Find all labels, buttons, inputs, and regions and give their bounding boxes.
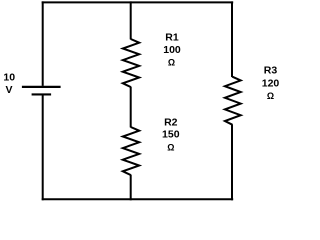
resistor R1: [123, 39, 139, 87]
wire middle between R1 and R2: [130, 87, 132, 128]
wire middle lower (R2 to bottom rail): [130, 175, 132, 201]
svg-text:V: V: [5, 84, 12, 96]
wire right upper (top rail to R3): [231, 1, 233, 77]
svg-text:Ω: Ω: [168, 58, 175, 68]
svg-text:Ω: Ω: [167, 142, 174, 152]
label source value 10 V: [3, 72, 15, 97]
svg-text:R1: R1: [165, 31, 179, 43]
svg-text:100: 100: [163, 44, 181, 56]
svg-text:150: 150: [162, 129, 180, 141]
resistor R3: [225, 77, 241, 125]
wire bottom rail: [42, 198, 234, 200]
wire right lower (R3 to bottom rail): [231, 124, 233, 200]
battery V1: [22, 87, 61, 95]
svg-text:Ω: Ω: [267, 91, 274, 101]
wire top rail: [42, 1, 234, 3]
svg-text:120: 120: [262, 77, 280, 89]
label R2 150 ohm: [162, 116, 180, 152]
label R1 100 ohm: [163, 31, 181, 67]
svg-text:R2: R2: [164, 116, 178, 128]
label R3 120 ohm: [262, 65, 280, 101]
svg-text:10: 10: [3, 72, 15, 84]
wire left upper (top rail to battery): [42, 1, 44, 86]
svg-text:R3: R3: [264, 65, 278, 77]
resistor R2: [123, 127, 139, 175]
wire middle upper (top rail to R1): [130, 1, 132, 39]
wire left lower (battery to bottom rail): [42, 95, 44, 200]
